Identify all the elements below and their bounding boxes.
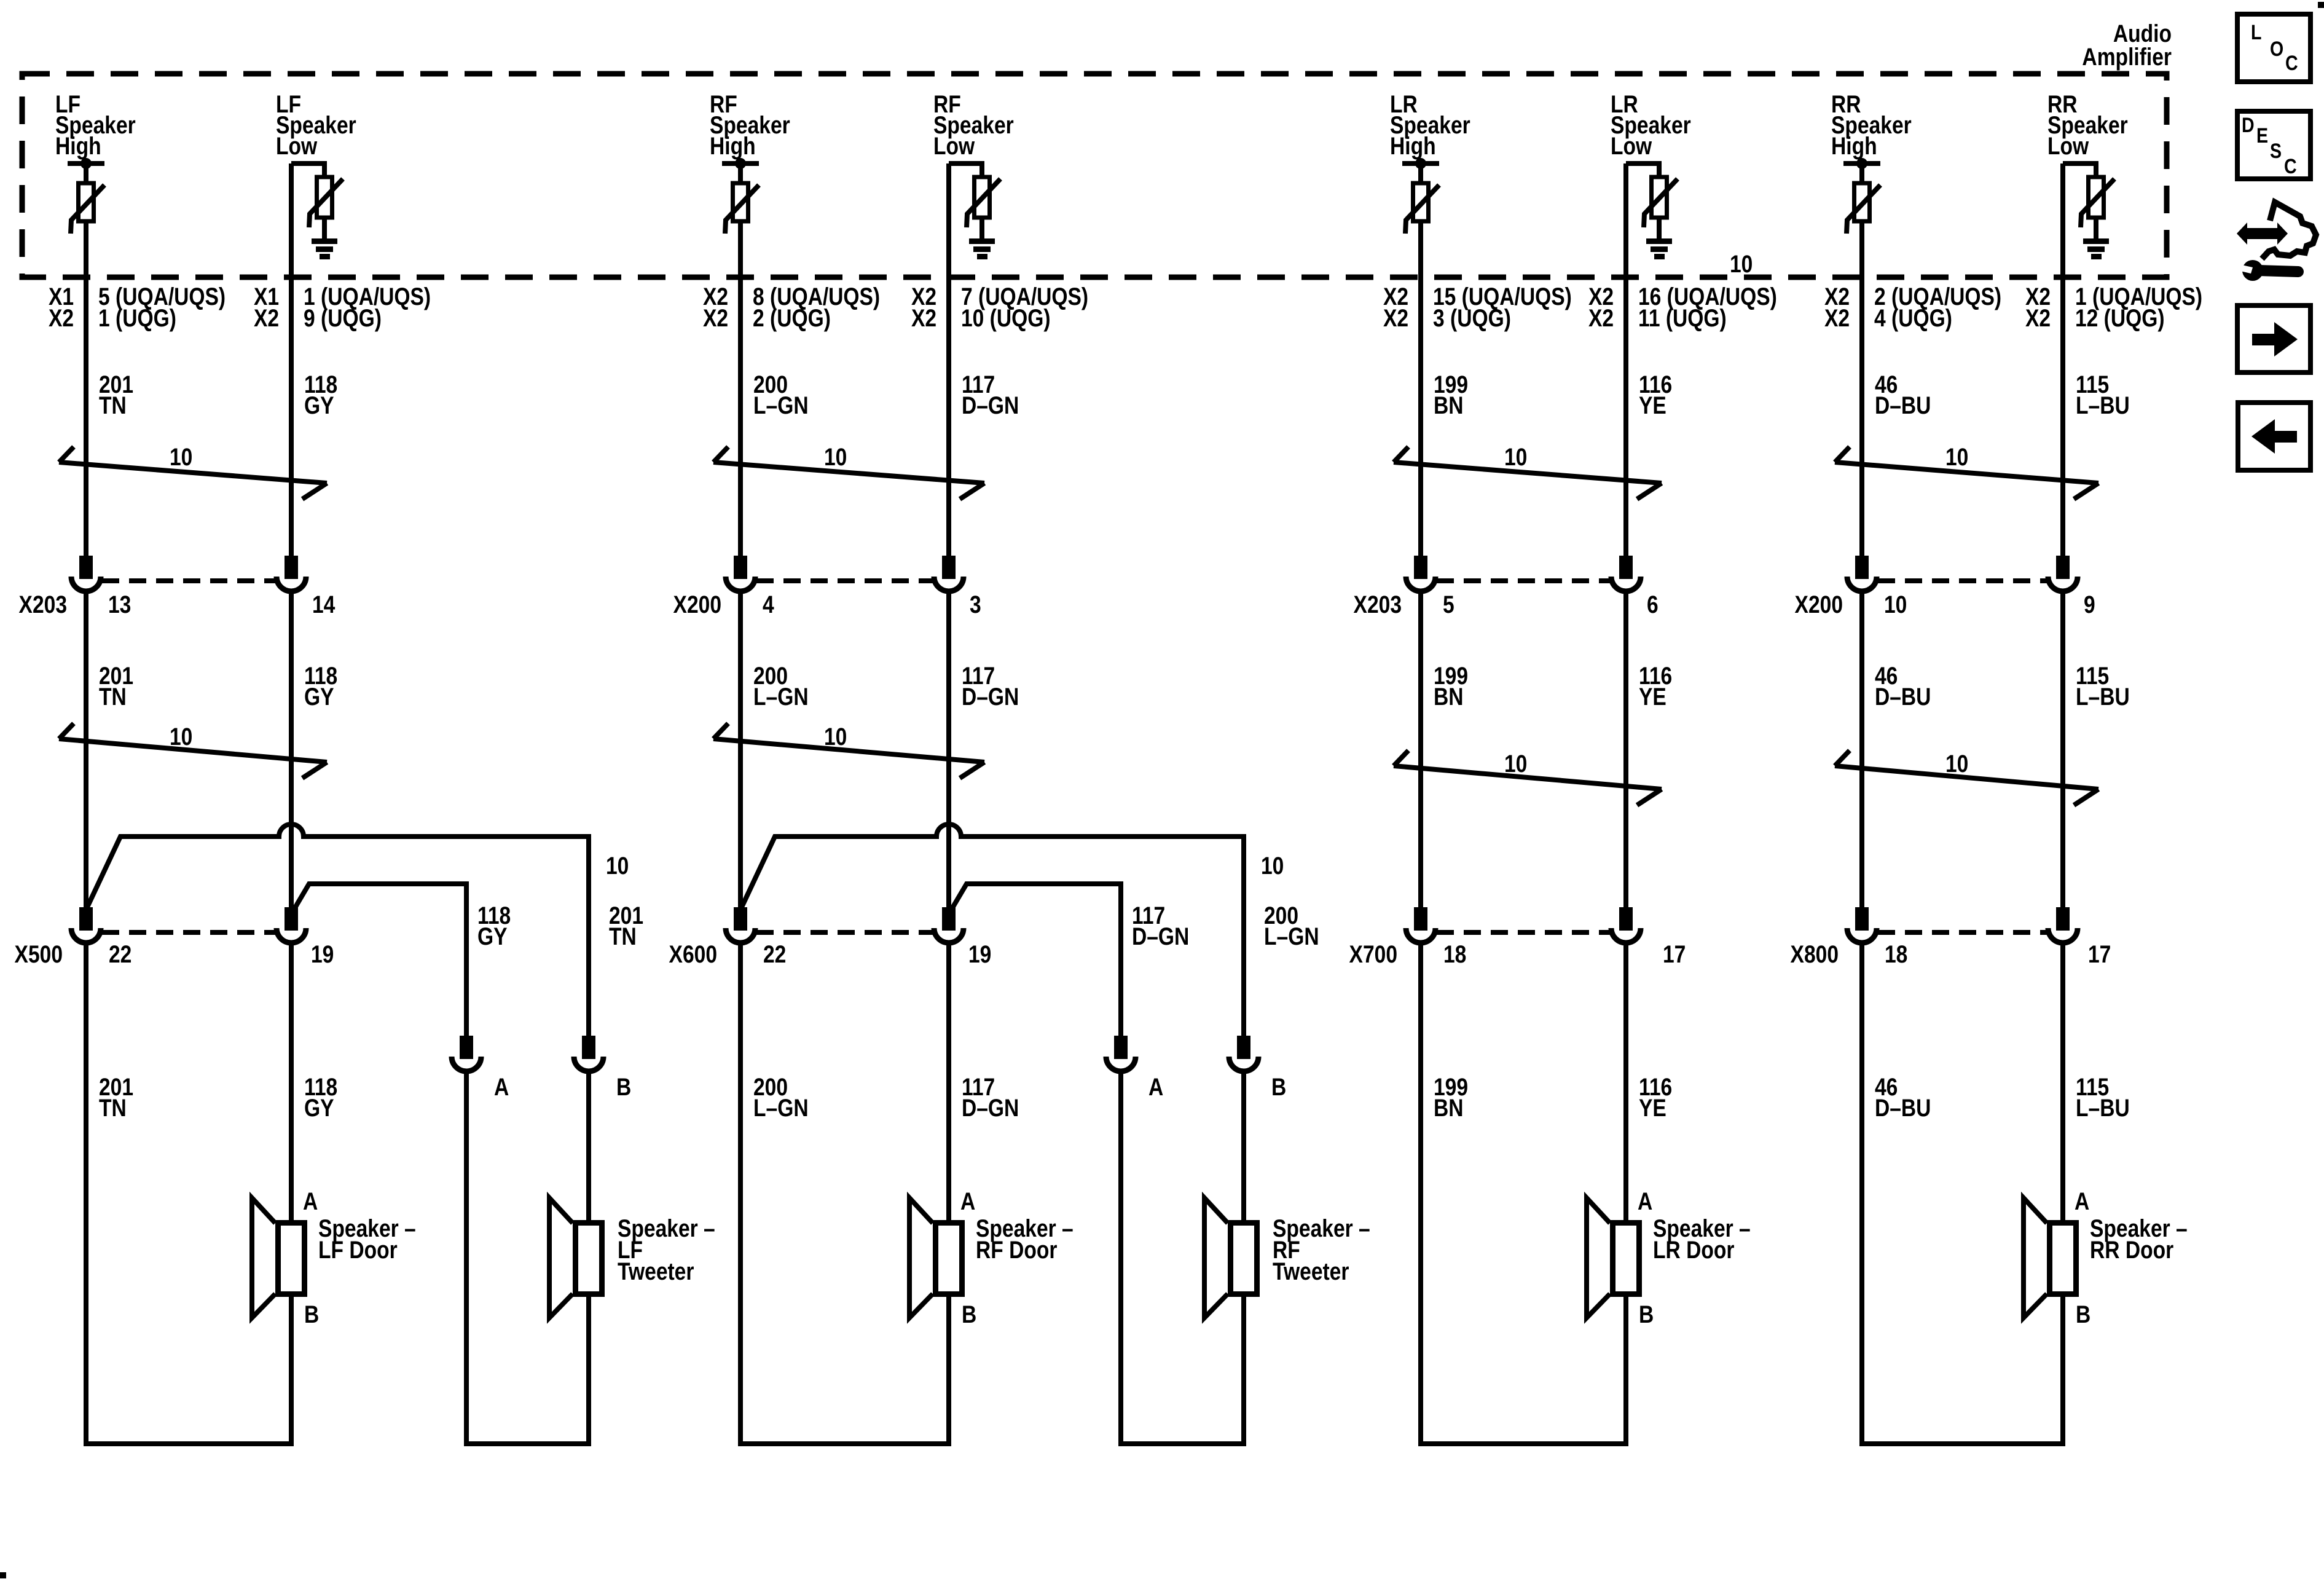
pin label A (RR Door) <box>2075 1187 2089 1215</box>
value label wire 199 BN <box>1434 371 1468 419</box>
svg-text:10: 10 <box>824 443 847 470</box>
value label 10 (branch) <box>1261 852 1284 879</box>
svg-text:10: 10 <box>1261 852 1284 879</box>
svg-text:LF Door: LF Door <box>318 1236 398 1263</box>
wire 201 TN between X203 and X500 <box>84 591 88 910</box>
pin label RR Speaker Low <box>2047 90 2128 159</box>
svg-text:O: O <box>2270 37 2283 61</box>
connector X800 pin 18 (male pin + female terminal) <box>1847 910 1877 943</box>
svg-text:17: 17 <box>2088 940 2111 967</box>
label: Audio Amplifier <box>2082 20 2172 70</box>
svg-text:3 (UQG): 3 (UQG) <box>1433 304 1511 331</box>
svg-text:L–BU: L–BU <box>2076 683 2130 710</box>
connector X203 pin 13 (male pin + female terminal) <box>71 558 101 591</box>
connector label X203 pins 13/14 <box>19 591 336 618</box>
pin numbers LR Low (16 (UQA/UQS) / 11 (UQG)) <box>1588 283 1777 331</box>
value label wire 200 L–GN <box>753 371 809 419</box>
connector label X203 pins 5/6 <box>1354 591 1659 618</box>
ground <box>969 238 995 259</box>
svg-text:S: S <box>2270 140 2282 163</box>
value label wire 117 D–GN (2) <box>962 662 1019 710</box>
wire 46 D–BU between X200 and X800 <box>1859 591 1864 908</box>
speaker SP-LF-door (Speaker - LF Door) <box>252 1198 305 1318</box>
speaker SP-RR-door (Speaker - RR Door) <box>2024 1198 2076 1318</box>
svg-text:B: B <box>962 1301 976 1328</box>
wire 117 D–GN to door speaker A <box>946 943 951 1220</box>
svg-text:Low: Low <box>276 132 317 159</box>
svg-text:B: B <box>1271 1073 1286 1100</box>
connector X200 pin 9 (male pin + female terminal) <box>2048 558 2078 591</box>
svg-text:22: 22 <box>109 940 132 967</box>
svg-text:TN: TN <box>99 1094 127 1121</box>
harness crossing symbol 10 (2) <box>1394 750 1662 805</box>
connector X203 pin 5 (male pin + female terminal) <box>1406 558 1435 591</box>
value label wire 117 D–GN <box>962 371 1019 419</box>
connector LF tweeter pin A (male pin + female terminal) <box>452 1038 481 1071</box>
svg-text:High: High <box>55 132 101 159</box>
pin label B (LF Door) <box>304 1301 319 1328</box>
connector X200 dashed link <box>1878 578 2047 583</box>
pin label A (tweeter connector) <box>1148 1073 1163 1100</box>
pin label B (LR Door) <box>1639 1301 1654 1328</box>
svg-text:D–BU: D–BU <box>1875 1094 1931 1121</box>
svg-text:High: High <box>710 132 756 159</box>
svg-text:LR Door: LR Door <box>1653 1236 1734 1263</box>
svg-text:GY: GY <box>477 923 508 950</box>
svg-text:C: C <box>2285 52 2298 75</box>
connector label X700 pins 18/17 <box>1349 940 1686 967</box>
svg-text:X200: X200 <box>673 591 721 618</box>
svg-text:22: 22 <box>763 940 786 967</box>
svg-text:1 (UQG): 1 (UQG) <box>98 304 176 331</box>
connector X203 dashed link <box>1437 578 1610 583</box>
value label wire 46 D–BU (2) <box>1875 662 1931 710</box>
svg-text:X2: X2 <box>911 304 936 331</box>
svg-text:9 (UQG): 9 (UQG) <box>304 304 382 331</box>
wire LF Speaker High output (circuit 201 TN) <box>84 221 88 558</box>
connector X800 dashed link <box>1878 930 2047 935</box>
svg-text:A: A <box>494 1073 509 1100</box>
connector X200 pin 3 (male pin + female terminal) <box>934 558 964 591</box>
svg-text:L–GN: L–GN <box>753 392 809 419</box>
value label wire 118 GY (2) <box>304 662 337 710</box>
ground <box>1646 238 1672 259</box>
pin label B (RF Door) <box>962 1301 976 1328</box>
icon service/adjust (double arrow, hand outline, wrench) <box>2237 202 2316 281</box>
wire 116 YE to door speaker A <box>1623 943 1628 1220</box>
pin label B (tweeter connector) <box>616 1073 631 1100</box>
connector X800 pin 17 (male pin + female terminal) <box>2048 910 2078 943</box>
svg-text:TN: TN <box>99 392 127 419</box>
svg-text:13: 13 <box>108 591 131 618</box>
wire tweeter B branch into speaker <box>1241 1071 1246 1220</box>
svg-text:12 (UQG): 12 (UQG) <box>2075 304 2165 331</box>
svg-text:A: A <box>1638 1187 1652 1215</box>
connector RF tweeter pin B (male pin + female terminal) <box>1229 1038 1258 1071</box>
svg-text:TN: TN <box>99 683 127 710</box>
label Speaker - LR Door <box>1653 1215 1751 1263</box>
svg-text:Low: Low <box>1611 132 1652 159</box>
svg-text:BN: BN <box>1434 683 1464 710</box>
wire LF Speaker Low output (circuit 118 GY) <box>289 163 294 558</box>
net label 10 (amp box harness) <box>1730 250 1753 277</box>
wire 115 L–BU between X200 and X800 <box>2060 591 2065 908</box>
connector X203 pin 6 (male pin + female terminal) <box>1611 558 1641 591</box>
wire branch 118 GY to LF tweeter connector A <box>293 884 466 1038</box>
amplifier output device (LR Speaker High) <box>1402 158 1439 234</box>
svg-text:18: 18 <box>1885 940 1907 967</box>
value label branch wire 201 TN <box>609 902 643 950</box>
value label wire 118 GY <box>304 371 337 419</box>
svg-text:Tweeter: Tweeter <box>1273 1258 1349 1285</box>
pin label LF Speaker Low <box>276 90 356 159</box>
pin label A (RF Door) <box>960 1187 975 1215</box>
svg-text:6: 6 <box>1647 591 1659 618</box>
pin numbers RF Low (7 (UQA/UQS) / 10 (UQG)) <box>911 283 1088 331</box>
corner registration mark bottom left <box>0 1572 6 1578</box>
wire RF Speaker High output (circuit 200 L–GN) <box>738 221 743 558</box>
svg-text:L–BU: L–BU <box>2076 392 2130 419</box>
value label wire 118 GY (3) <box>304 1073 337 1121</box>
svg-text:E: E <box>2256 124 2268 148</box>
label Speaker - LF Door <box>318 1215 416 1263</box>
pin numbers LF High (5 (UQA/UQS) / 1 (UQG)) <box>49 283 226 331</box>
svg-text:L: L <box>2251 21 2261 44</box>
wire LR Speaker Low output (circuit 116 YE) <box>1623 163 1628 558</box>
svg-text:19: 19 <box>311 940 334 967</box>
corner registration mark top right <box>2318 2 2324 8</box>
svg-text:3: 3 <box>970 591 981 618</box>
icon DESC box <box>2237 111 2310 179</box>
svg-text:A: A <box>960 1187 975 1215</box>
wire branch 200 L–GN to RF tweeter connector B <box>741 824 1244 1038</box>
label Speaker - RF Door <box>976 1215 1074 1263</box>
value label branch wire 118 GY <box>477 902 511 950</box>
label Speaker - RR Door <box>2090 1215 2188 1263</box>
label Speaker - RF Tweeter <box>1273 1215 1370 1285</box>
svg-text:B: B <box>2076 1301 2090 1328</box>
connector X600 dashed link <box>756 930 933 935</box>
wire LR Speaker High output (circuit 199 BN) <box>1418 221 1423 558</box>
value label wire 201 TN (2) <box>99 662 133 710</box>
svg-text:RF Door: RF Door <box>976 1236 1057 1263</box>
connector X500 pin 22 (male pin + female terminal) <box>71 910 101 943</box>
amplifier output device (RR Speaker Low) <box>2063 163 2114 238</box>
value label wire 200 L–GN (3) <box>753 1073 809 1121</box>
connector X600 pin 22 (male pin + female terminal) <box>726 910 755 943</box>
pin numbers RR Low (1 (UQA/UQS) / 12 (UQG)) <box>2025 283 2202 331</box>
svg-text:GY: GY <box>304 683 334 710</box>
wire branch 201 TN to LF tweeter connector B <box>87 824 589 1038</box>
svg-text:TN: TN <box>609 923 637 950</box>
svg-text:D: D <box>2242 114 2255 137</box>
pin label RF Speaker Low <box>933 90 1014 159</box>
wire tweeter A branch to loop <box>466 1071 589 1444</box>
icon back arrow box <box>2238 403 2310 470</box>
wire branch 117 D–GN to RF tweeter connector A <box>951 884 1121 1038</box>
connector label X600 pins 22/19 <box>669 940 992 967</box>
connector X700 pin 17 (male pin + female terminal) <box>1611 910 1641 943</box>
svg-text:2 (UQG): 2 (UQG) <box>753 304 831 331</box>
harness crossing symbol 10 <box>59 443 327 499</box>
harness crossing symbol 10 <box>1835 443 2098 499</box>
value label wire 115 L–BU (2) <box>2076 662 2130 710</box>
svg-text:X2: X2 <box>1824 304 1850 331</box>
connector label X200 pins 10/9 <box>1795 591 2095 618</box>
pin label RR Speaker High <box>1831 90 1912 159</box>
svg-text:17: 17 <box>1663 940 1686 967</box>
svg-text:D–GN: D–GN <box>962 1094 1019 1121</box>
svg-text:BN: BN <box>1434 392 1464 419</box>
svg-text:RR Door: RR Door <box>2090 1236 2173 1263</box>
speaker SP-RF-door (Speaker - RF Door) <box>909 1198 962 1318</box>
connector X200 pin 10 (male pin + female terminal) <box>1847 558 1877 591</box>
svg-text:10: 10 <box>1945 443 1968 470</box>
svg-text:D–GN: D–GN <box>962 683 1019 710</box>
wire RR Speaker Low output (circuit 115 L–BU) <box>2060 163 2065 558</box>
value label branch wire 200 L–GN <box>1264 902 1319 950</box>
svg-text:A: A <box>2075 1187 2089 1215</box>
value label wire 199 BN (2) <box>1434 662 1468 710</box>
harness crossing symbol 10 <box>713 443 984 499</box>
svg-text:10 (UQG): 10 (UQG) <box>961 304 1051 331</box>
wire 46 D–BU to speaker B loop <box>1862 943 2063 1444</box>
connector X203 pin 14 (male pin + female terminal) <box>277 558 306 591</box>
svg-text:High: High <box>1390 132 1436 159</box>
svg-text:B: B <box>616 1073 631 1100</box>
svg-text:B: B <box>1639 1301 1654 1328</box>
svg-text:18: 18 <box>1443 940 1466 967</box>
svg-text:Amplifier: Amplifier <box>2082 43 2172 70</box>
svg-text:10: 10 <box>1884 591 1907 618</box>
value label wire 116 YE (3) <box>1639 1073 1672 1121</box>
value label wire 116 YE <box>1639 371 1672 419</box>
connector label X200 pins 4/3 <box>673 591 981 618</box>
harness crossing symbol 10 (2) <box>713 723 984 778</box>
svg-text:5: 5 <box>1443 591 1454 618</box>
svg-text:D–BU: D–BU <box>1875 392 1931 419</box>
pin label LR Speaker Low <box>1611 90 1691 159</box>
connector X203 dashed link <box>102 578 275 583</box>
value label wire 46 D–BU <box>1875 371 1931 419</box>
value label wire 199 BN (3) <box>1434 1073 1468 1121</box>
wire 200 L–GN between X200 and X600 <box>738 591 743 910</box>
svg-text:X2: X2 <box>2025 304 2051 331</box>
pin label B (tweeter connector) <box>1271 1073 1286 1100</box>
connector X500 pin 19 (male pin + female terminal) <box>277 910 306 943</box>
value label wire 117 D–GN (3) <box>962 1073 1019 1121</box>
svg-text:YE: YE <box>1639 1094 1666 1121</box>
svg-text:10: 10 <box>606 852 629 879</box>
svg-text:10: 10 <box>170 443 192 470</box>
svg-text:10: 10 <box>1504 750 1527 777</box>
svg-text:D–GN: D–GN <box>1132 923 1189 950</box>
pin numbers RR High (2 (UQA/UQS) / 4 (UQG)) <box>1824 283 2001 331</box>
svg-text:X2: X2 <box>49 304 74 331</box>
value label wire 115 L–BU <box>2076 371 2130 419</box>
svg-text:Low: Low <box>2047 132 2089 159</box>
svg-text:4: 4 <box>763 591 774 618</box>
svg-text:D–BU: D–BU <box>1875 683 1931 710</box>
svg-text:14: 14 <box>312 591 336 618</box>
connector X500 dashed link <box>102 930 275 935</box>
svg-text:4 (UQG): 4 (UQG) <box>1874 304 1952 331</box>
pin label LR Speaker High <box>1390 90 1470 159</box>
pin label A (LF Door) <box>303 1187 318 1215</box>
amplifier output device (LF Speaker Low) <box>291 163 343 238</box>
svg-text:Low: Low <box>933 132 975 159</box>
connector LF tweeter pin B (male pin + female terminal) <box>574 1038 603 1071</box>
connector label X800 pins 18/17 <box>1791 940 2111 967</box>
svg-text:L–GN: L–GN <box>753 683 809 710</box>
value label 10 (branch) <box>606 852 629 879</box>
svg-text:X203: X203 <box>19 591 67 618</box>
svg-text:X2: X2 <box>254 304 279 331</box>
pin numbers LF Low (1 (UQA/UQS) / 9 (UQG)) <box>254 283 431 331</box>
svg-text:X2: X2 <box>1588 304 1614 331</box>
connector X200 dashed link <box>756 578 933 583</box>
wire RR Speaker High output (circuit 46 D–BU) <box>1859 221 1864 558</box>
svg-text:10: 10 <box>170 723 192 750</box>
wire RF Speaker Low output (circuit 117 D–GN) <box>946 163 951 558</box>
svg-text:10: 10 <box>824 723 847 750</box>
value label wire 46 D–BU (3) <box>1875 1073 1931 1121</box>
Audio Amplifier dashed component box <box>22 74 2167 277</box>
value label wire 115 L–BU (3) <box>2076 1073 2130 1121</box>
amplifier output device (RF Speaker High) <box>722 158 759 234</box>
svg-text:X2: X2 <box>1383 304 1408 331</box>
connector X700 pin 18 (male pin + female terminal) <box>1406 910 1435 943</box>
wire 199 BN between X203 and X700 <box>1418 591 1423 908</box>
svg-text:L–BU: L–BU <box>2076 1094 2130 1121</box>
svg-text:YE: YE <box>1639 683 1666 710</box>
harness crossing symbol 10 (2) <box>1835 750 2098 805</box>
harness crossing symbol 10 (2) <box>59 723 327 778</box>
svg-text:11 (UQG): 11 (UQG) <box>1638 304 1727 331</box>
svg-text:A: A <box>303 1187 318 1215</box>
wire 201 TN to speaker B loop <box>86 943 291 1444</box>
value label wire 201 TN <box>99 371 133 419</box>
label Speaker - LF Tweeter <box>618 1215 715 1285</box>
svg-text:10: 10 <box>1945 750 1968 777</box>
svg-text:Tweeter: Tweeter <box>618 1258 694 1285</box>
icon LOC box <box>2237 14 2310 82</box>
svg-text:B: B <box>304 1301 319 1328</box>
wire 116 YE between X203 and X700 <box>1623 591 1628 908</box>
ground <box>312 238 337 259</box>
svg-text:GY: GY <box>304 392 334 419</box>
ground <box>2083 238 2109 259</box>
wire 118 GY between X203 and X500 <box>289 591 294 908</box>
svg-text:X500: X500 <box>15 940 63 967</box>
amplifier output device (RR Speaker High) <box>1843 158 1880 234</box>
svg-text:9: 9 <box>2084 591 2095 618</box>
amplifier output device (LF Speaker High) <box>68 158 104 234</box>
svg-text:High: High <box>1831 132 1877 159</box>
connector label X500 pins 22/19 <box>15 940 334 967</box>
svg-text:YE: YE <box>1639 392 1666 419</box>
svg-text:L–GN: L–GN <box>753 1094 809 1121</box>
svg-text:X2: X2 <box>703 304 728 331</box>
pin label A (LR Door) <box>1638 1187 1652 1215</box>
wire 200 L–GN to speaker B loop <box>740 943 949 1444</box>
value label branch wire 117 D–GN <box>1132 902 1189 950</box>
svg-text:L–GN: L–GN <box>1264 923 1319 950</box>
svg-text:10: 10 <box>1504 443 1527 470</box>
value label wire 116 YE (2) <box>1639 662 1672 710</box>
wire tweeter A branch to loop <box>1121 1071 1244 1444</box>
svg-text:19: 19 <box>968 940 991 967</box>
value label wire 200 L–GN (2) <box>753 662 809 710</box>
speaker SP-LR-door (Speaker - LR Door) <box>1587 1198 1639 1318</box>
pin label RF Speaker High <box>710 90 790 159</box>
pin label B (RR Door) <box>2076 1301 2090 1328</box>
svg-text:X600: X600 <box>669 940 717 967</box>
speaker SP-LF-tweeter (Speaker - LF Tweeter) <box>549 1198 602 1318</box>
wire 118 GY to door speaker A <box>289 943 294 1220</box>
svg-text:C: C <box>2284 155 2297 178</box>
wire tweeter B branch into speaker <box>586 1071 591 1220</box>
speaker SP-RF-tweeter (Speaker - RF Tweeter) <box>1204 1198 1257 1318</box>
svg-text:10: 10 <box>1730 250 1753 277</box>
svg-text:A: A <box>1148 1073 1163 1100</box>
svg-text:X800: X800 <box>1791 940 1839 967</box>
wire 117 D–GN between X200 and X600 <box>946 591 951 908</box>
svg-text:X700: X700 <box>1349 940 1397 967</box>
connector X700 dashed link <box>1437 930 1610 935</box>
connector RF tweeter pin A (male pin + female terminal) <box>1106 1038 1136 1071</box>
svg-text:X203: X203 <box>1354 591 1402 618</box>
connector X200 pin 4 (male pin + female terminal) <box>726 558 755 591</box>
connector X600 pin 19 (male pin + female terminal) <box>934 910 964 943</box>
amplifier output device (RF Speaker Low) <box>949 163 1000 238</box>
icon forward arrow box <box>2237 305 2310 372</box>
svg-text:BN: BN <box>1434 1094 1464 1121</box>
pin numbers LR High (15 (UQA/UQS) / 3 (UQG)) <box>1383 283 1572 331</box>
svg-text:X200: X200 <box>1795 591 1843 618</box>
svg-text:GY: GY <box>304 1094 334 1121</box>
wire 199 BN to speaker B loop <box>1421 943 1626 1444</box>
pin label LF Speaker High <box>55 90 136 159</box>
pin label A (tweeter connector) <box>494 1073 509 1100</box>
wire 115 L–BU to door speaker A <box>2060 943 2065 1220</box>
amplifier output device (LR Speaker Low) <box>1626 163 1678 238</box>
pin numbers RF High (8 (UQA/UQS) / 2 (UQG)) <box>703 283 880 331</box>
svg-text:D–GN: D–GN <box>962 392 1019 419</box>
harness crossing symbol 10 <box>1394 443 1662 499</box>
value label wire 201 TN (3) <box>99 1073 133 1121</box>
